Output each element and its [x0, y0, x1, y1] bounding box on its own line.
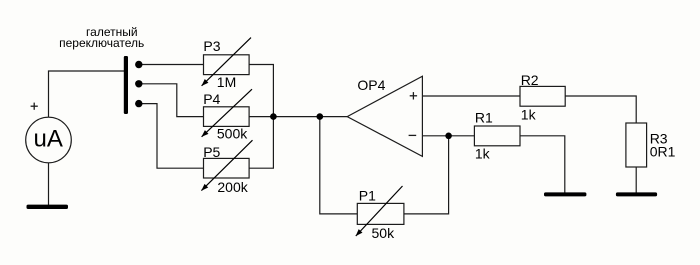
svg-text:P3: P3 — [203, 38, 220, 54]
svg-text:0R1: 0R1 — [650, 144, 676, 160]
svg-text:500k: 500k — [217, 126, 248, 142]
svg-text:OP4: OP4 — [357, 77, 385, 93]
svg-text:uA: uA — [34, 126, 63, 153]
svg-text:1k: 1k — [475, 146, 491, 162]
svg-text:P4: P4 — [203, 91, 220, 107]
svg-text:R1: R1 — [475, 110, 493, 126]
svg-text:P1: P1 — [359, 188, 376, 204]
svg-text:50k: 50k — [372, 225, 396, 241]
svg-text:R2: R2 — [521, 72, 539, 88]
svg-text:P5: P5 — [203, 144, 220, 160]
svg-text:200k: 200k — [217, 179, 248, 195]
svg-text:переключатель: переключатель — [59, 36, 144, 50]
svg-text:1k: 1k — [521, 107, 537, 123]
svg-text:1M: 1M — [217, 74, 236, 90]
